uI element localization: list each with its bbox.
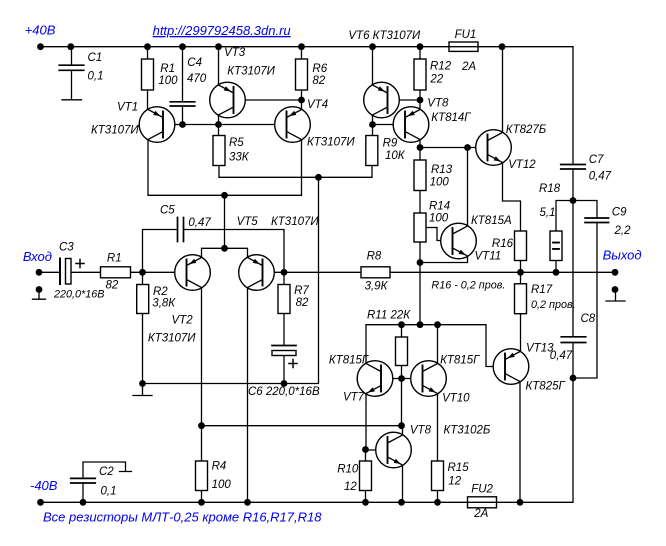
svg-text:C4: C4 — [187, 57, 202, 69]
svg-text:КТ814Г: КТ814Г — [431, 112, 471, 124]
capacitor C1 (0,1) — [59, 65, 84, 70]
junction VAS node — [398, 422, 405, 429]
wire VT8 base — [373, 124, 406, 126]
wire tail to VT5 emitter — [225, 248, 248, 257]
transistor VT6 (KT3107I, PNP) — [364, 82, 400, 118]
wire node to R4 top — [201, 426, 203, 461]
svg-text:C2: C2 — [99, 466, 114, 478]
svg-text:2А: 2А — [461, 61, 476, 73]
wire R1 to VT2 base — [131, 271, 187, 273]
wire node A to R18 top — [556, 201, 573, 232]
junction VT11 coll/VT12 base — [464, 144, 471, 151]
junction C8/C9 node B — [570, 375, 577, 382]
resistor R4 (100) — [196, 461, 208, 491]
junction VT8 coll/R13/VT12 base — [417, 144, 424, 151]
wire R17 to VT13 emitter — [520, 314, 522, 352]
svg-text:R14: R14 — [429, 201, 450, 213]
resistor R13 (100) — [414, 160, 426, 191]
wire R16 bottom to rail — [520, 261, 522, 273]
wire VT7 emitter down — [365, 394, 367, 450]
node input terminal — [36, 269, 43, 276]
transistor VT7 (KT815G, NPN) — [357, 361, 393, 397]
ground signal bus — [133, 384, 152, 396]
svg-text:КТ825Г: КТ825Г — [526, 380, 566, 392]
wire C6 bottom — [283, 356, 285, 384]
svg-text:http://299792458.3dn.ru: http://299792458.3dn.ru — [153, 23, 291, 38]
transistor VT8 (KT814G, PNP) — [393, 107, 429, 143]
resistor R2 (3,8K) — [137, 285, 149, 314]
wire +40V top rail — [41, 47, 574, 165]
wire VT9 emitter to rail — [402, 465, 404, 502]
junction R6/rail — [298, 43, 305, 50]
junction R1/rail — [144, 43, 151, 50]
svg-text:КТ815А: КТ815А — [471, 215, 512, 227]
polarity + mark C6 — [289, 360, 297, 368]
svg-text:3,8К: 3,8К — [152, 298, 176, 310]
wire VT8 collector to VT12 base — [420, 147, 488, 149]
wire node to R7 top — [283, 272, 285, 284]
svg-text:Вход: Вход — [23, 249, 52, 264]
resistor R8 (3,9K) — [361, 267, 390, 278]
wire R4 bottom to rail — [201, 491, 203, 503]
junction VT6 coll/R9/VT8 base — [369, 121, 376, 128]
wire R12 bottom — [419, 90, 421, 100]
junction mirror line — [221, 192, 228, 199]
junction R5-R9/ground bus — [315, 174, 322, 181]
wire R14 bottom — [419, 242, 421, 263]
junction VT7 emitter/VT9 base/R10 — [362, 446, 369, 453]
junction R11 bottom/base line — [398, 375, 405, 382]
svg-text:VT7: VT7 — [343, 392, 365, 404]
svg-text:0,1: 0,1 — [101, 486, 117, 498]
wire VT9 base — [366, 449, 388, 451]
wire R5 bottom to R9 bottom — [219, 166, 372, 178]
wire rail to R6 top — [301, 47, 303, 59]
svg-text:R11 22К: R11 22К — [367, 310, 411, 322]
svg-text:R2: R2 — [153, 286, 168, 298]
junction R1/R2/C5/VT2 base — [139, 269, 146, 276]
junction VT5 base/C5/R7 — [281, 269, 288, 276]
junction R16/R17/rail — [517, 269, 524, 276]
wire VT3 base to R6 — [234, 99, 302, 101]
junction VT3/rail — [215, 43, 222, 50]
wire ground bus to R5/R9 node — [143, 177, 319, 383]
ground input — [33, 290, 46, 300]
polarity + mark C3 — [76, 260, 84, 268]
wire R13 to R14 — [419, 191, 421, 214]
capacitor C6 (220,0*16V electrolytic) — [272, 345, 296, 347]
svg-text:VT4: VT4 — [307, 99, 328, 111]
wire C5 left leg — [143, 230, 178, 273]
junction R4/rail — [198, 499, 205, 506]
junction VT10 coll/bias line — [434, 321, 441, 328]
wire R2 bottom — [142, 314, 144, 384]
svg-text:VT2: VT2 — [172, 315, 194, 327]
junction VT2 coll/R4/VAS wire — [198, 422, 205, 429]
junction R5/base line — [215, 121, 222, 128]
ground output — [606, 290, 625, 302]
junction C4/base line — [179, 121, 186, 128]
svg-text:КТ3107И: КТ3107И — [91, 124, 139, 136]
wire tail node — [224, 195, 226, 248]
wire node to R11 top — [401, 325, 403, 337]
wire to VT4 emitter — [301, 100, 303, 110]
junction VT13 coll/FU2 rail — [517, 499, 524, 506]
wire VT5 collector to rail — [247, 288, 249, 503]
junction R10/rail — [362, 499, 369, 506]
svg-text:22: 22 — [429, 74, 443, 86]
transistor VT5 (KT3107I, PNP) — [239, 255, 275, 291]
wire R6 bottom — [301, 90, 303, 100]
svg-text:VT8: VT8 — [410, 425, 432, 437]
svg-text:R1: R1 — [160, 63, 175, 75]
junction diff pair tail — [221, 245, 228, 252]
wire R10 bottom — [365, 491, 367, 503]
svg-text:КТ3107И: КТ3107И — [271, 216, 319, 228]
svg-text:VT1: VT1 — [117, 101, 138, 113]
svg-text:Все резисторы МЛТ-0,25 кроме R: Все резисторы МЛТ-0,25 кроме R16,R17,R18 — [43, 510, 322, 525]
wire VT6 base to R12 — [388, 99, 421, 101]
svg-text:R6: R6 — [312, 63, 327, 75]
transistor VT3 (KT3107I, PNP) — [210, 82, 246, 118]
wire VT13 base to bias line — [438, 325, 506, 367]
resistor R10 (12) — [360, 461, 372, 491]
svg-text:12: 12 — [448, 475, 461, 487]
capacitor C4 (470) — [170, 102, 195, 106]
wire VT5 base to R8 — [263, 271, 362, 273]
wire VT10 emitter to R15 — [437, 394, 439, 462]
capacitor C8 (0,47) — [561, 337, 586, 343]
svg-text:R16 - 0,2 пров.: R16 - 0,2 пров. — [431, 280, 505, 292]
svg-text:0,1: 0,1 — [88, 71, 104, 83]
fuse FU1 (2A) — [449, 42, 478, 51]
junction R6/VT3 base/VT4 — [298, 97, 305, 104]
transistor VT11 (KT815A, NPN) — [441, 223, 477, 259]
wire VT1 collector to VT4 collector — [148, 140, 302, 196]
node output ground terminal — [612, 286, 619, 293]
svg-text:R12: R12 — [430, 60, 452, 72]
svg-text:5,1: 5,1 — [540, 207, 556, 219]
svg-text:R7: R7 — [294, 285, 309, 297]
svg-text:КТ3107И: КТ3107И — [307, 137, 355, 149]
resistor R12 (22) — [414, 59, 426, 90]
transistor VT12 (KT827B, NPN) — [476, 130, 512, 166]
capacitor C5 (0,47) — [178, 218, 184, 242]
junction VT6/rail — [369, 43, 376, 50]
svg-text:C5: C5 — [160, 204, 175, 216]
svg-text:-40В: -40В — [30, 478, 58, 493]
resistor R15 (12) — [432, 461, 444, 491]
wire C9 bottom to node B — [573, 223, 597, 379]
wire VT1 base line — [163, 124, 287, 126]
svg-text:100: 100 — [429, 213, 449, 225]
wire node to R10 — [365, 450, 367, 462]
wire -40V bottom rail — [41, 378, 574, 502]
junction R14/VT11 emitter — [417, 259, 424, 266]
junction C2/rail — [80, 499, 87, 506]
svg-text:10К: 10К — [385, 150, 406, 162]
wire to VT8 emitter — [419, 100, 421, 110]
capacitor C7 (0,47) — [561, 165, 586, 170]
svg-text:КТ3102Б: КТ3102Б — [444, 425, 491, 437]
svg-text:КТ3107И: КТ3107И — [227, 66, 275, 78]
wire junction to R2 top — [142, 272, 144, 284]
resistor R9 (10K) — [366, 136, 378, 166]
resistor R14 (100) — [414, 213, 426, 242]
svg-text:VT6 КТ3107И: VT6 КТ3107И — [348, 30, 421, 42]
svg-text:VT5: VT5 — [237, 216, 259, 228]
wire node to R5 top — [218, 125, 220, 136]
svg-text:C8: C8 — [581, 313, 596, 325]
svg-text:C1: C1 — [88, 52, 103, 64]
resistor R17 (0,2 wire) — [515, 284, 527, 314]
svg-text:VT3: VT3 — [224, 47, 246, 59]
junction VT9 emitter/rail — [398, 499, 405, 506]
wire C1 bottom stub — [62, 70, 82, 100]
junction R12/rail — [417, 43, 424, 50]
wire rail to R1 top — [147, 47, 149, 59]
svg-text:100: 100 — [430, 176, 450, 188]
junction VT5 coll/rail — [244, 499, 251, 506]
svg-text:R5: R5 — [229, 137, 244, 149]
wire VT3 collector — [218, 115, 220, 125]
wire R14 tap to VT11 base — [426, 228, 453, 241]
wire VT9 collector — [402, 426, 404, 435]
resistor R5 (33K) — [213, 136, 225, 166]
svg-text:R4: R4 — [212, 460, 227, 472]
resistor R1 input (82) — [101, 267, 131, 278]
wire rail to C4 top — [182, 47, 184, 102]
svg-text:2А: 2А — [473, 508, 488, 520]
node input ground terminal — [36, 286, 43, 293]
svg-text:0,47: 0,47 — [188, 217, 211, 229]
svg-text:+40В: +40В — [25, 23, 56, 38]
svg-text:R17: R17 — [531, 284, 553, 296]
junction C6/ground bus — [281, 380, 288, 387]
junction R18/rail — [553, 269, 560, 276]
junction C1/rail — [67, 43, 74, 50]
wire VT12 collector to FU1 node — [502, 47, 504, 133]
wire R11 node down — [401, 379, 403, 426]
wire tail to VT2 emitter — [202, 248, 225, 257]
svg-text:82: 82 — [312, 75, 325, 87]
svg-text:C7: C7 — [589, 154, 604, 166]
junction C7/R18/C9/C8 node A — [570, 197, 577, 204]
transistor VT1 (KT3107I, PNP) — [139, 107, 175, 143]
wire R8 to output — [390, 271, 615, 273]
svg-text:R10: R10 — [337, 463, 359, 475]
wire C4 bottom — [182, 106, 184, 125]
resistor R11 (22K) — [396, 337, 408, 366]
wire R7 bottom to C6 — [283, 314, 285, 346]
svg-text:КТ3107И: КТ3107И — [148, 333, 196, 345]
svg-text:КТ815Г: КТ815Г — [329, 355, 369, 367]
svg-text:R9: R9 — [383, 137, 398, 149]
svg-text:2,2: 2,2 — [614, 225, 632, 237]
wire C3 to R1 — [71, 271, 101, 273]
svg-text:VT12: VT12 — [508, 159, 536, 171]
svg-text:0,47: 0,47 — [589, 171, 612, 183]
svg-text:3,9К: 3,9К — [365, 280, 389, 292]
svg-text:33К: 33К — [229, 152, 250, 164]
wire node A to C8 top — [572, 201, 574, 337]
capacitor C3 (220,0*16V electrolytic) — [59, 259, 61, 285]
svg-text:C3: C3 — [59, 241, 74, 253]
wire C2 top stub — [83, 462, 132, 478]
wire VT12 emitter to R16 — [503, 163, 521, 232]
wire node to R13 — [419, 148, 421, 161]
junction FU1 output — [499, 43, 506, 50]
node -40V terminal — [37, 499, 44, 506]
wire rail to R12 — [419, 47, 421, 59]
svg-text:100: 100 — [158, 75, 178, 87]
svg-text:12: 12 — [344, 481, 357, 493]
transistor VT4 (KT3107I, PNP) — [275, 107, 311, 143]
wire C7 bottom to node A — [572, 169, 574, 201]
svg-text:C9: C9 — [612, 207, 627, 219]
wire VT11 collector up — [467, 148, 469, 227]
wire R15 bottom — [437, 491, 439, 503]
svg-text:82: 82 — [106, 280, 119, 292]
resistor R6 (82) — [296, 59, 308, 90]
svg-text:Выход: Выход — [603, 248, 642, 263]
svg-text:R15: R15 — [448, 462, 470, 474]
transistor VT10 (KT815G, NPN) — [411, 361, 447, 397]
wire VT7-VT10 base line — [381, 378, 423, 380]
transistor VT13 (KT825G, PNP) — [493, 349, 529, 385]
svg-text:0,2 пров.: 0,2 пров. — [531, 299, 576, 311]
resistor R7 (82) — [278, 285, 290, 314]
junction R13-R14 chain/bias line — [417, 321, 424, 328]
wire rail to C1 — [71, 47, 73, 65]
svg-text:R13: R13 — [431, 164, 453, 176]
capacitor C9 (2,2) — [585, 218, 609, 223]
wire VT10 collector up — [437, 325, 439, 364]
wire VT11 emitter — [420, 256, 468, 263]
node output terminal — [612, 269, 619, 276]
junction R2/ground bus — [139, 380, 146, 387]
svg-text:VT8: VT8 — [427, 98, 449, 110]
wire rail to R17 — [520, 272, 522, 284]
junction R12/VT6 base/VT8 — [417, 97, 424, 104]
wire VT7 collector bias line — [366, 325, 438, 364]
svg-text:FU1: FU1 — [455, 29, 477, 41]
wire C8 bottom to node B — [572, 343, 574, 379]
capacitor C2 (0,1) — [71, 478, 96, 483]
wire R18 bottom to output rail — [555, 261, 557, 273]
svg-text:R1: R1 — [107, 253, 122, 265]
transistor VT2 (KT3107I, PNP) — [175, 255, 211, 291]
wire rail to VT3 — [218, 47, 220, 85]
svg-text:220,0*16В: 220,0*16В — [53, 289, 104, 301]
junction R15/rail — [434, 499, 441, 506]
transistor VT9 (KT3102B, NPN) — [376, 432, 412, 468]
svg-text:82: 82 — [296, 297, 309, 309]
junction C4/rail — [179, 43, 186, 50]
svg-text:470: 470 — [187, 73, 207, 85]
wire VT6 collector to R9 — [372, 115, 374, 136]
resistor R1 (100) — [142, 59, 154, 90]
node +40V terminal — [37, 43, 44, 50]
svg-text:VT13: VT13 — [526, 343, 554, 355]
svg-text:R18: R18 — [539, 183, 561, 195]
svg-text:VT10: VT10 — [442, 393, 470, 405]
resistor R18 (5,1) — [550, 231, 562, 261]
wire VT13 collector to rail — [519, 382, 521, 503]
fuse FU2 (2A) — [468, 497, 497, 508]
wire rail to VT6 — [372, 47, 374, 85]
wire node A to C9 top — [573, 201, 597, 219]
wire C5 right leg — [184, 230, 285, 273]
svg-text:R16: R16 — [492, 238, 514, 250]
wire VT8 collector — [419, 140, 421, 148]
wire R1 to VT1 emitter — [147, 90, 149, 110]
wire VAS node horizontal — [202, 425, 402, 427]
resistor R16 — [515, 231, 527, 261]
svg-text:100: 100 — [212, 479, 232, 491]
wire input to C3 — [39, 271, 60, 273]
wire to R11 rail — [419, 263, 421, 325]
svg-text:VT11: VT11 — [475, 251, 502, 263]
svg-text:R8: R8 — [367, 251, 382, 263]
svg-text:КТ815Г: КТ815Г — [440, 354, 480, 366]
wire C2 to rail — [82, 483, 84, 502]
wire R11 bottom — [401, 366, 403, 379]
junction R11 top/bias line — [398, 321, 405, 328]
svg-text:КТ827Б: КТ827Б — [506, 124, 547, 136]
svg-text:С6 220,0*16В: С6 220,0*16В — [248, 386, 320, 398]
wire VT2 collector down — [201, 288, 203, 426]
svg-text:FU2: FU2 — [471, 484, 493, 496]
